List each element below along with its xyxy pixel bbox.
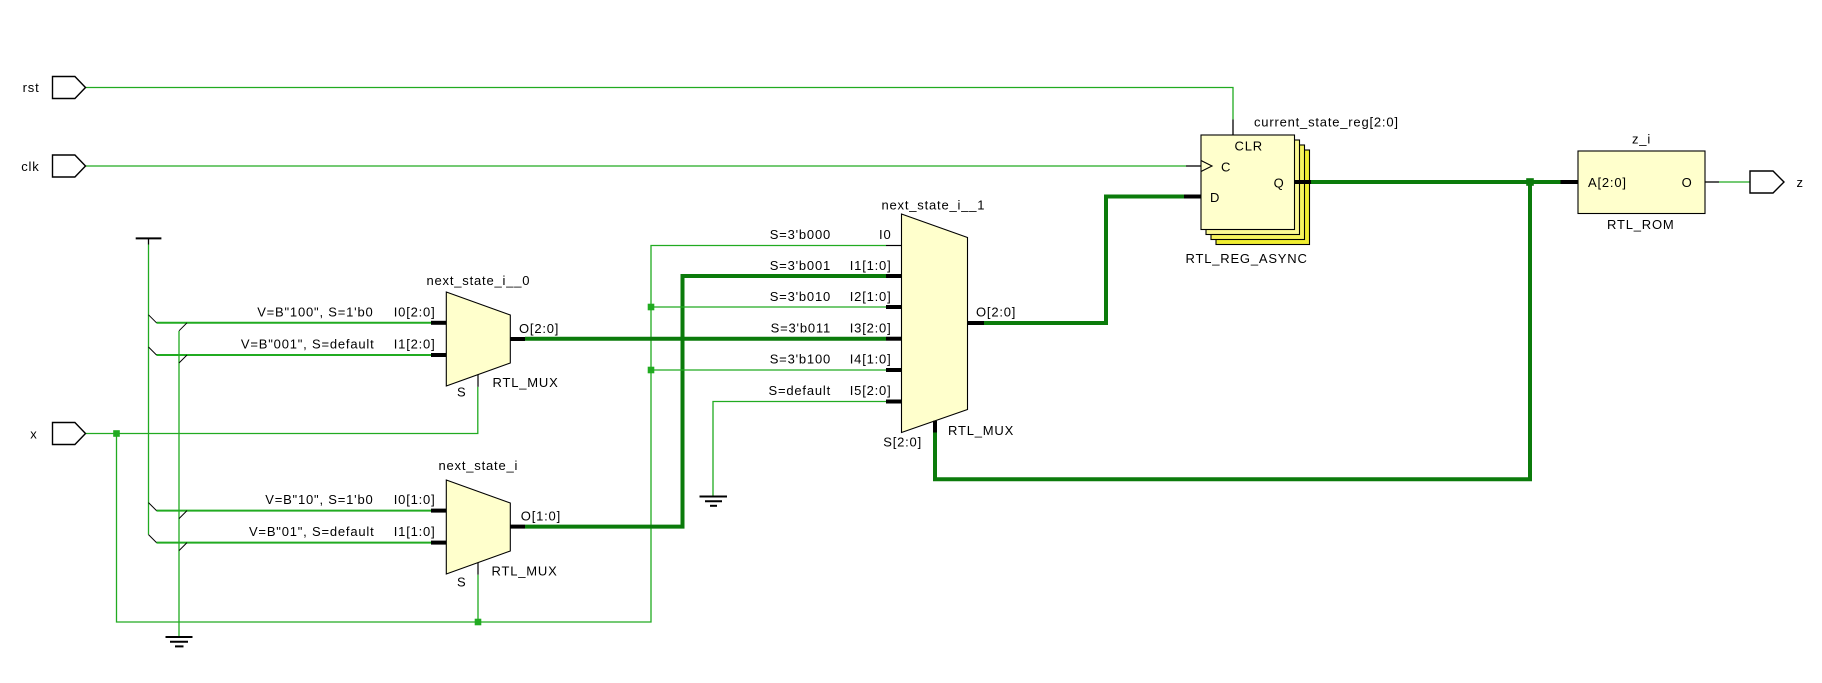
svg-text:current_state_reg[2:0]: current_state_reg[2:0] (1254, 115, 1399, 130)
pin stub O ROM (1705, 181, 1719, 183)
pin stub I1 lower mux (431, 541, 446, 545)
pin stub D register (1184, 195, 1201, 199)
svg-text:I1[2:0]: I1[2:0] (394, 337, 436, 352)
svg-text:next_state_i__0: next_state_i__0 (427, 273, 531, 288)
svg-text:D: D (1210, 190, 1220, 205)
node junction x (113, 430, 120, 437)
svg-text:O[2:0]: O[2:0] (519, 321, 559, 336)
svg-text:I0[1:0]: I0[1:0] (394, 492, 436, 507)
svg-text:S=default: S=default (769, 383, 832, 398)
svg-text:V=B"001", S=default: V=B"001", S=default (241, 337, 375, 352)
pin stub I0 lower mux (431, 509, 446, 513)
svg-text:I5[2:0]: I5[2:0] (850, 383, 892, 398)
node junction I2 (648, 304, 655, 311)
svg-text:S=3'b011: S=3'b011 (771, 321, 831, 336)
pin stub S upper mux (477, 375, 479, 387)
svg-text:S=3'b000: S=3'b000 (770, 227, 831, 242)
port clk (53, 155, 86, 177)
pin stub I3 big mux (886, 337, 902, 341)
tap diagonal (149, 535, 157, 543)
svg-text:RTL_ROM: RTL_ROM (1607, 217, 1674, 232)
svg-text:I1[1:0]: I1[1:0] (850, 258, 892, 273)
svg-text:V=B"100", S=1'b0: V=B"100", S=1'b0 (257, 305, 373, 320)
svg-text:S=3'b010: S=3'b010 (770, 289, 831, 304)
wire x net horizontal to mux selects (86, 387, 478, 434)
port rst (53, 77, 86, 99)
ground symbol mid (700, 497, 728, 506)
register current_state_reg[2:0] main box (1201, 135, 1295, 230)
svg-text:O[2:0]: O[2:0] (976, 305, 1016, 320)
svg-text:I3[2:0]: I3[2:0] (850, 321, 892, 336)
pin stub O big mux (968, 321, 985, 325)
wire bus big mux O to register D (984, 197, 1184, 324)
svg-text:C: C (1221, 160, 1231, 175)
wire constant V=B"100" to upper mux I0 (157, 322, 432, 324)
wire clk net (86, 165, 1187, 167)
pin stub I1 big mux (886, 274, 902, 278)
svg-text:V=B"01", S=default: V=B"01", S=default (249, 524, 375, 539)
pin stub C (1186, 165, 1201, 167)
svg-text:z: z (1797, 175, 1804, 190)
svg-text:S[2:0]: S[2:0] (883, 435, 922, 450)
tap diagonal (179, 323, 187, 331)
pin stub I5 big mux (886, 400, 902, 404)
wire x to I2 big mux (651, 306, 886, 308)
wire rst net (86, 88, 1234, 120)
port x (53, 423, 86, 445)
svg-text:next_state_i__1: next_state_i__1 (882, 198, 986, 213)
svg-text:rst: rst (23, 80, 40, 95)
power VCC T symbol (136, 238, 162, 244)
pin stub I4 big mux (886, 368, 902, 372)
tap diagonal (149, 503, 157, 511)
wire z net (1719, 181, 1750, 183)
wire constant V=B"001" to upper mux I1 (157, 354, 432, 356)
register current_state_reg stacked shadows (1216, 150, 1310, 245)
port z (1750, 171, 1784, 193)
svg-text:CLR: CLR (1235, 139, 1263, 154)
tap diagonal (179, 355, 187, 363)
wire bus Q feedback to S big mux (935, 182, 1530, 479)
ROM z_i box (1578, 151, 1705, 214)
node junction feedback (1526, 178, 1534, 186)
mux next_state_i__0 (446, 292, 510, 386)
node junction I4 (648, 367, 655, 374)
svg-text:V=B"10", S=1'b0: V=B"10", S=1'b0 (265, 492, 373, 507)
wire gnd to I5 big mux (713, 402, 886, 497)
mux next_state_i (446, 480, 510, 574)
svg-text:x: x (30, 427, 37, 442)
svg-text:I0: I0 (879, 227, 891, 242)
pin stub S lower mux (477, 563, 479, 575)
mux next_state_i__1 (902, 214, 968, 433)
node junction S lower (475, 619, 482, 626)
tap diagonal (149, 347, 157, 355)
wire x to I4 big mux (651, 369, 886, 371)
tap diagonal (149, 315, 157, 323)
pin stub Q register (1295, 180, 1312, 184)
pin stub O upper mux (510, 337, 525, 341)
wire bus lower mux O to big mux I1 (525, 276, 886, 527)
svg-text:RTL_MUX: RTL_MUX (948, 423, 1014, 438)
ground symbol lower-left (166, 637, 193, 646)
svg-text:I0[2:0]: I0[2:0] (394, 305, 436, 320)
svg-text:O: O (1682, 175, 1693, 190)
svg-text:S=3'b100: S=3'b100 (770, 352, 831, 367)
wire S lower mux to x net (477, 575, 479, 622)
wire GND bundle vertical (178, 331, 180, 637)
wire bus upper mux O to big mux I3 (525, 337, 886, 341)
pin stub S big mux (933, 421, 937, 433)
pin stub CLR (1232, 120, 1234, 136)
svg-text:S=3'b001: S=3'b001 (770, 258, 831, 273)
pin stub I0 big mux (886, 245, 902, 247)
svg-text:S: S (457, 385, 466, 400)
tap diagonal (179, 511, 187, 519)
svg-text:S: S (457, 575, 466, 590)
svg-text:I2[1:0]: I2[1:0] (850, 289, 892, 304)
clock wedge C (1201, 161, 1212, 172)
svg-text:RTL_MUX: RTL_MUX (492, 564, 558, 579)
svg-text:O[1:0]: O[1:0] (521, 509, 561, 524)
svg-text:I4[1:0]: I4[1:0] (850, 352, 892, 367)
svg-text:next_state_i: next_state_i (439, 458, 519, 473)
pin stub A ROM (1561, 180, 1579, 184)
svg-text:I1[1:0]: I1[1:0] (394, 524, 436, 539)
svg-text:z_i: z_i (1632, 132, 1651, 147)
wire constant V=B"10" to lower mux I0 (157, 510, 432, 512)
pin stub I1 upper mux (431, 353, 446, 357)
wire bus Q to ROM A (1311, 180, 1561, 184)
pin stub O lower mux (510, 525, 525, 529)
wire constant V=B"01" to lower mux I1 (157, 542, 432, 544)
tap diagonal (179, 543, 187, 551)
pin stub I2 big mux (886, 305, 902, 309)
svg-text:Q: Q (1274, 176, 1285, 191)
svg-text:clk: clk (21, 159, 39, 174)
svg-text:RTL_REG_ASYNC: RTL_REG_ASYNC (1186, 251, 1308, 266)
wire VCC bundle vertical (148, 245, 150, 535)
svg-text:RTL_MUX: RTL_MUX (493, 375, 559, 390)
pin stub I0 upper mux (431, 321, 446, 325)
wire x net lower loop to big mux I0 (117, 246, 887, 623)
svg-text:A[2:0]: A[2:0] (1588, 175, 1627, 190)
